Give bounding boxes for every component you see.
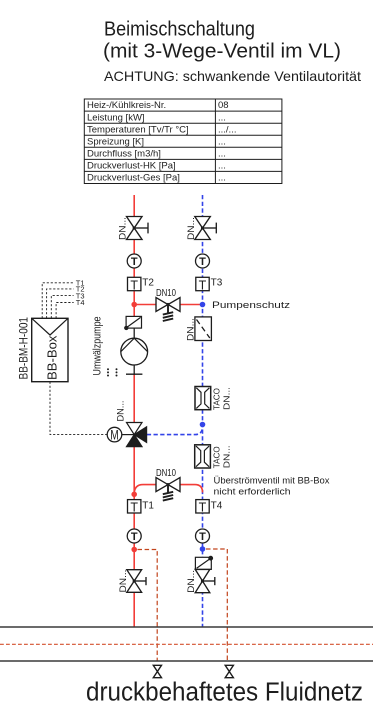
BB-Box controller [32,318,68,381]
svg-text:T: T [131,256,138,268]
thermometer circle T supply top [127,254,141,268]
thermometer circle T supply bottom [127,529,141,543]
svg-text:Leistung [kW]: Leistung [kW] [87,112,145,123]
shutoff valve DN... top supply [127,217,149,240]
svg-text:...: ... [218,161,226,172]
pump flange bar [126,373,142,375]
wire: sensor line T3 to BB-Box [51,296,73,319]
data table frame [84,99,282,184]
main fluid network line upper [0,626,373,628]
junction dot blue interface [200,546,206,552]
svg-text:T1: T1 [142,500,154,511]
temperature sensor T4 [196,500,223,515]
svg-text:druckbehaftetes Fluidnetz: druckbehaftetes Fluidnetz [86,679,363,704]
svg-text:Temperaturen [Tv/Tr °C]: Temperaturen [Tv/Tr °C] [87,124,189,135]
pump assembly black connecting line [133,328,135,338]
check valve DN... on return [195,317,212,341]
svg-text:DN...: DN... [186,217,196,240]
closed tap symbol left [153,665,161,677]
svg-text:T: T [130,278,138,292]
svg-text:T: T [199,501,207,515]
svg-text:DN...: DN... [222,445,232,468]
svg-text:Druckverlust-HK [Pa]: Druckverlust-HK [Pa] [87,161,176,172]
main fluid network line lower [0,660,373,662]
svg-text:DN...: DN... [186,570,196,593]
wire: supply red vertical pipe [133,195,135,317]
svg-text:DN10: DN10 [156,288,176,299]
svg-text:T2: T2 [142,277,154,288]
wire: red overflow bypass with rounded corners [134,485,202,495]
svg-text:T: T [131,531,138,543]
svg-text:DN10: DN10 [156,468,176,479]
wire: sensor line T1 to BB-Box [42,283,73,319]
wire: dashed interface boundary right [206,549,227,661]
svg-text:T: T [199,278,207,292]
pump speed controller box [124,316,141,330]
spring of overflow valve [163,485,173,501]
svg-text:...: ... [218,112,226,123]
svg-text:Spreizung [K]: Spreizung [K] [87,136,144,147]
svg-text:T3: T3 [211,277,223,288]
wire: return blue dashed vertical pipe [202,195,204,627]
svg-text:Pumpenschutz: Pumpenschutz [212,300,290,311]
svg-text:DN...: DN... [222,387,232,410]
main fluid network dashed red line [0,643,373,645]
svg-text:Heiz-/Kühlkreis-Nr.: Heiz-/Kühlkreis-Nr. [87,100,166,111]
svg-text:Umwälzpumpe: Umwälzpumpe [92,317,104,376]
svg-text:T4: T4 [76,298,85,307]
pump Umwälzpumpe circle [121,338,148,365]
overflow valve DN10 bypass [156,478,180,492]
svg-text:DN...: DN... [118,217,128,240]
svg-text:TACO: TACO [212,446,222,468]
svg-text:ACHTUNG: schwankende Ventilaut: ACHTUNG: schwankende Ventilautorität [104,68,361,84]
pump protection valve DN10 [156,298,180,312]
temperature sensor T2 [128,277,155,292]
svg-text:Überströmventil mit BB-Box: Überströmventil mit BB-Box [214,476,330,487]
svg-text:DN...: DN... [118,570,128,593]
shutoff valve DN... bottom supply [127,570,146,593]
svg-text:BB-BM-H-001: BB-BM-H-001 [16,317,30,380]
svg-text:T: T [130,501,138,515]
pump value dots ... rotated [107,368,118,376]
svg-text:DN...: DN... [116,401,126,422]
svg-text:.../...: .../... [218,124,236,135]
junction dot red supply/bypass [131,302,137,308]
3-way mixing valve [127,423,147,447]
temperature sensor T3 [196,277,223,292]
svg-text:nicht erforderlich: nicht erforderlich [214,487,291,498]
svg-text:Beimischschaltung: Beimischschaltung [104,19,255,41]
junction dot blue mixing [200,422,206,428]
svg-text:T4: T4 [211,500,223,511]
svg-text:08: 08 [218,100,229,111]
svg-text:...: ... [218,136,226,147]
spring of pump protection valve [163,305,173,322]
svg-text:Druckverlust-Ges [Pa]: Druckverlust-Ges [Pa] [87,173,180,184]
svg-text:M: M [110,428,119,443]
TACO balancing valve upper [195,387,211,410]
junction dot red interface [131,547,137,553]
svg-text:...: ... [218,173,226,184]
thermometer circle T return top [196,254,210,268]
svg-text:BB-Box: BB-Box [45,335,60,380]
wire: sensor line T4 to BB-Box [56,303,74,319]
svg-text:T: T [199,531,206,543]
control valve with actuator bottom return [195,556,213,570]
svg-text:...: ... [218,149,226,160]
table row 1 [87,100,236,183]
wire: dashed control line from BB-Box to actuator [50,382,108,435]
svg-text:Durchfluss [m3/h]: Durchfluss [m3/h] [87,149,161,160]
closed tap symbol right [225,665,233,677]
motor actuator M [107,427,134,442]
svg-text:TACO: TACO [212,388,222,410]
junction dot red bypass lower [131,492,137,498]
wire: pump protection red cross connector [134,304,202,306]
svg-text:(mit 3-Wege-Ventil im VL): (mit 3-Wege-Ventil im VL) [103,41,341,63]
temperature sensor T1 [128,500,155,515]
svg-text:DN...: DN... [185,318,195,341]
wire: sensor line T2 to BB-Box [47,289,74,318]
shutoff valve DN... top return [195,217,217,240]
junction dot blue return/bypass [200,302,206,308]
thermometer circle T return bottom [196,529,210,543]
svg-text:T: T [199,256,206,268]
wire: blue dashed connector from 3-way valve to return [147,427,203,435]
TACO balancing valve lower [195,445,211,468]
wire: dashed interface boundary left [138,550,158,661]
